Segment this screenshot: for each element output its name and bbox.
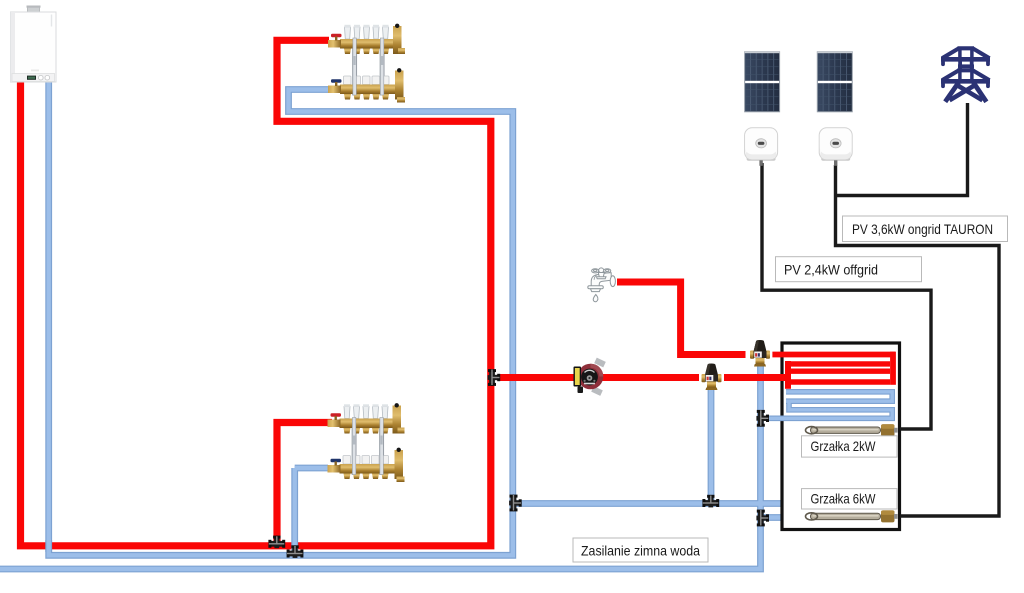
svg-text:Grzałka 2kW: Grzałka 2kW xyxy=(811,438,877,454)
svg-text:Grzałka 6kW: Grzałka 6kW xyxy=(811,491,877,507)
svg-text:PV 3,6kW ongrid TAURON: PV 3,6kW ongrid TAURON xyxy=(852,221,993,237)
svg-text:Zasilanie zimna woda: Zasilanie zimna woda xyxy=(581,542,700,558)
svg-text:PV 2,4kW offgrid: PV 2,4kW offgrid xyxy=(784,262,878,278)
